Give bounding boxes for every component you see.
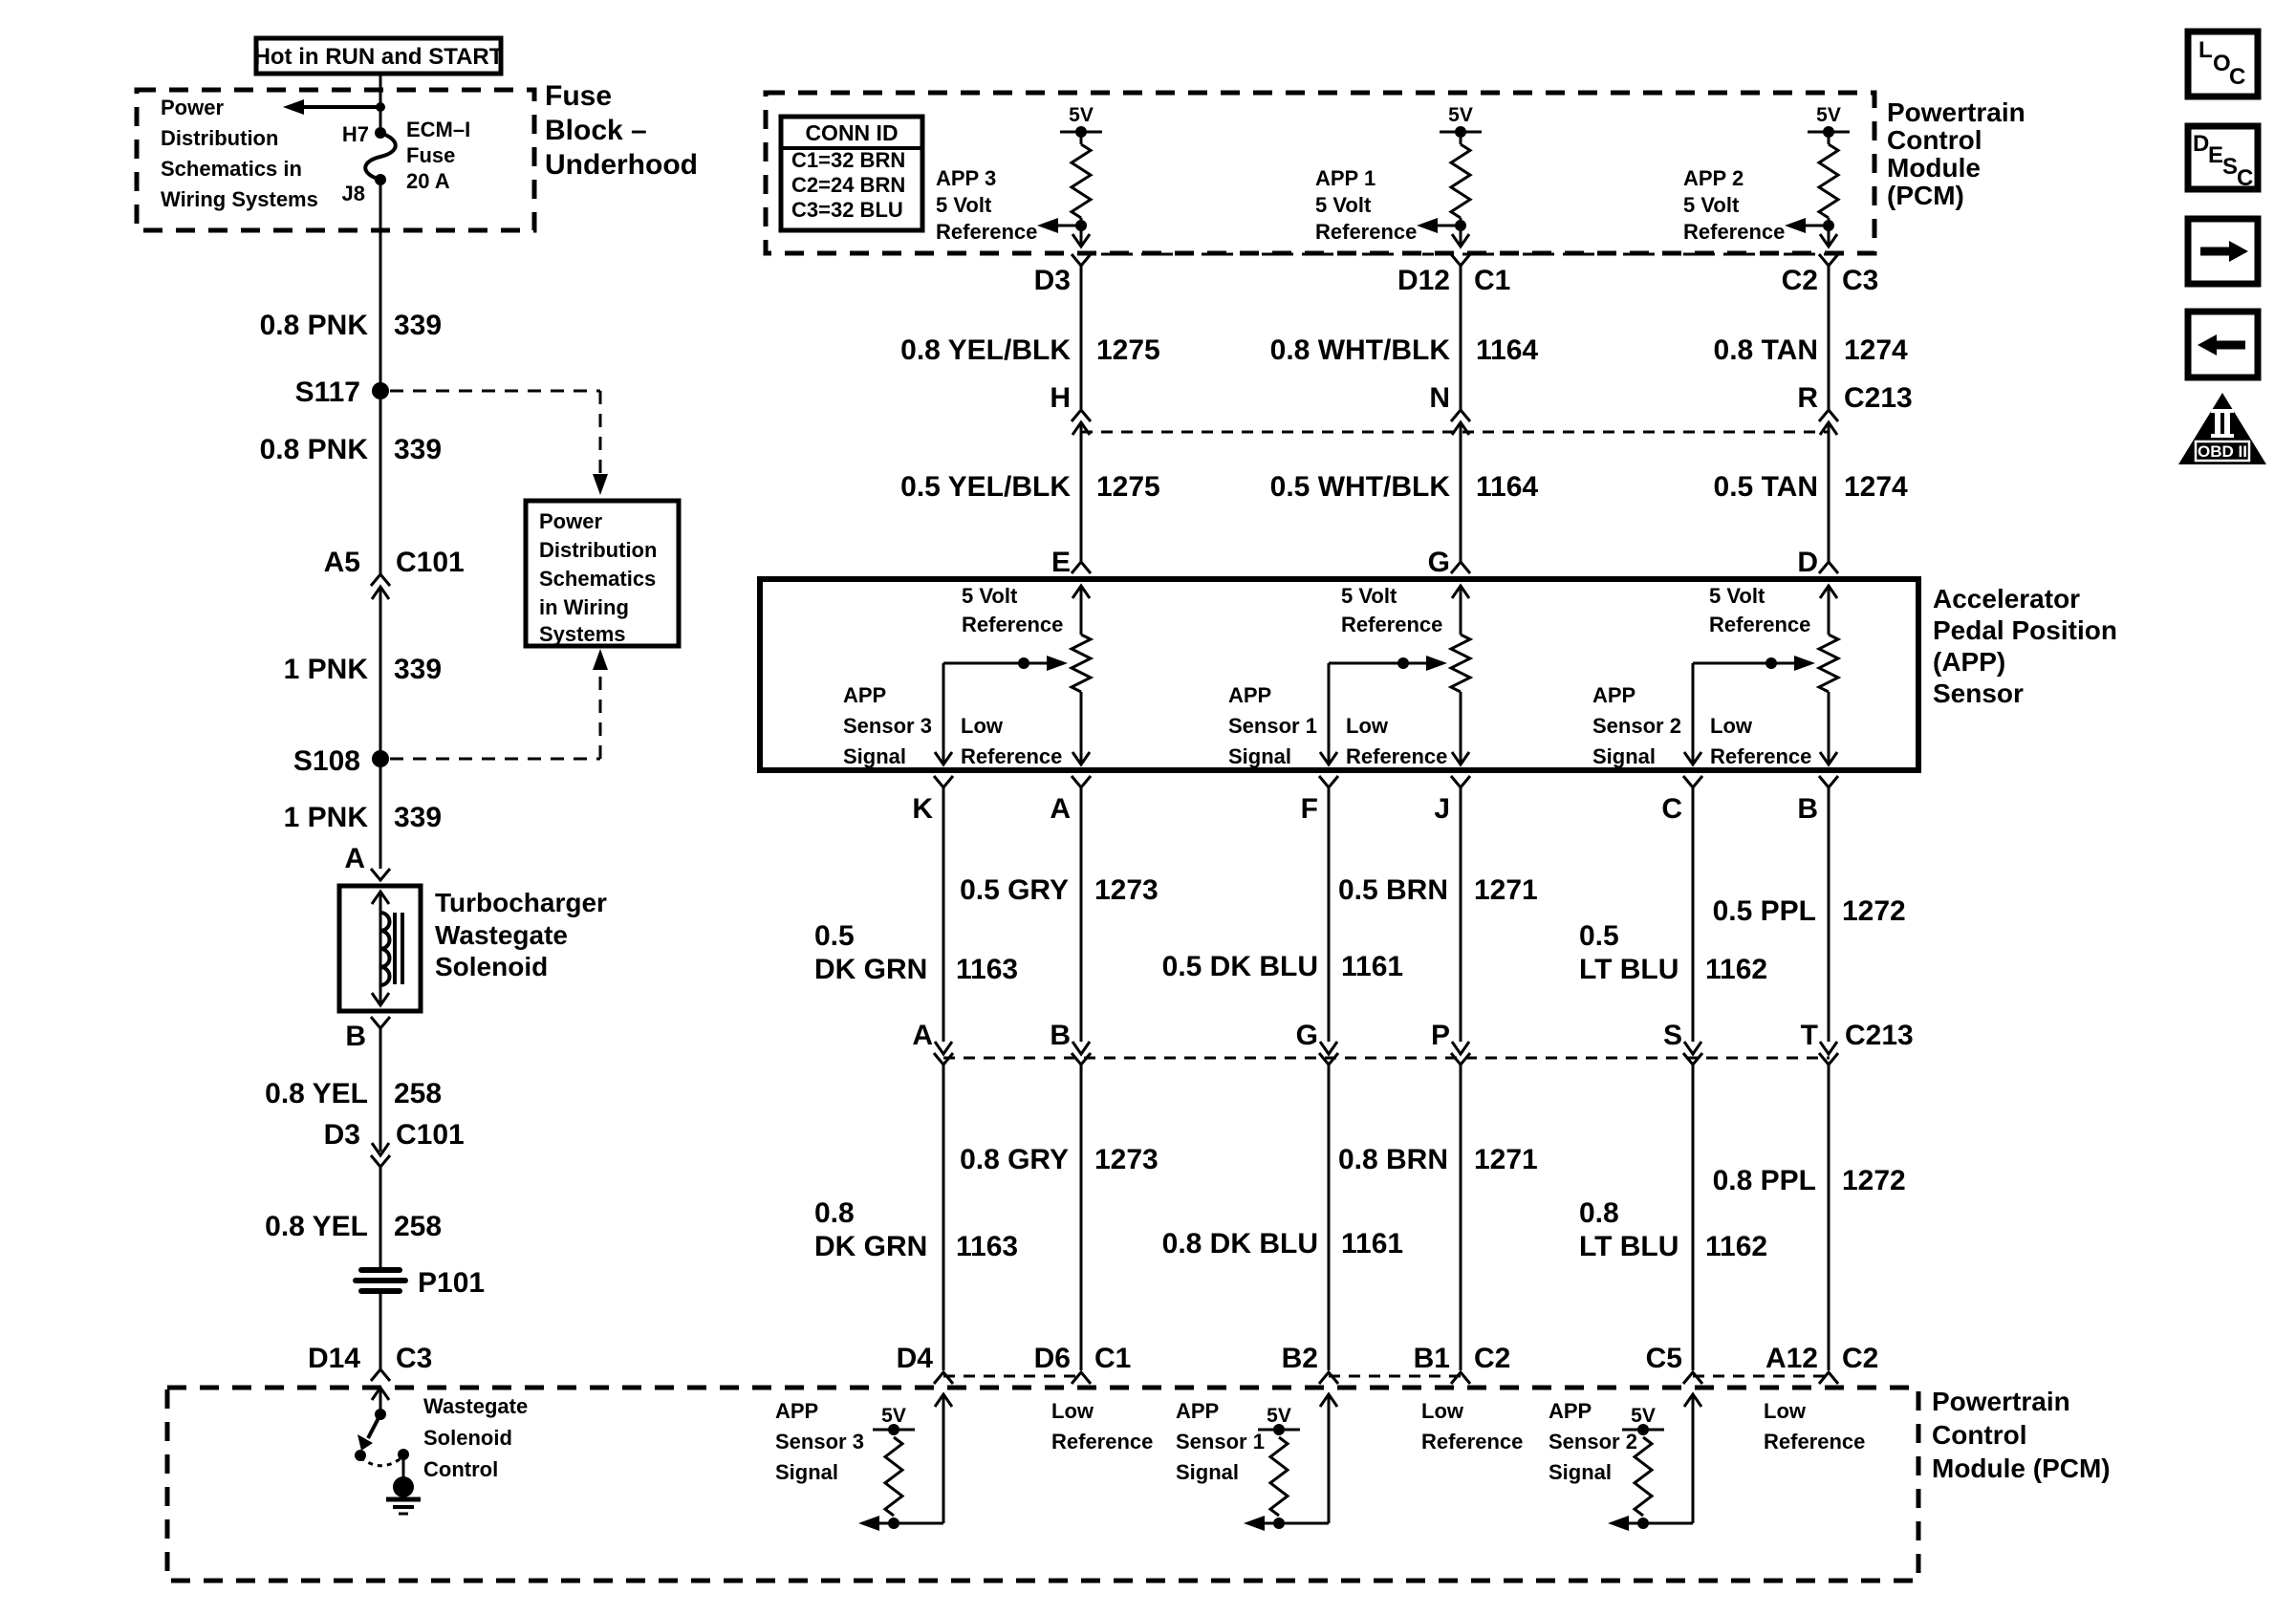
svg-text:C1: C1 (1474, 265, 1510, 296)
svg-text:Control: Control (423, 1457, 498, 1481)
svg-text:C2=24 BRN: C2=24 BRN (791, 173, 905, 197)
svg-text:Sensor 3: Sensor 3 (775, 1430, 864, 1453)
svg-text:Low: Low (1421, 1399, 1464, 1423)
svg-text:Reference: Reference (962, 613, 1063, 636)
svg-text:Low: Low (1710, 714, 1753, 738)
svg-text:G: G (1428, 547, 1450, 578)
svg-text:Low: Low (1346, 714, 1389, 738)
svg-text:Sensor 2: Sensor 2 (1549, 1430, 1637, 1453)
svg-text:C1=32 BRN: C1=32 BRN (791, 148, 905, 172)
svg-text:B2: B2 (1282, 1343, 1318, 1374)
svg-text:Control: Control (1887, 125, 1982, 155)
svg-text:G: G (1296, 1020, 1318, 1051)
svg-text:Solenoid: Solenoid (423, 1426, 512, 1450)
svg-text:Sensor: Sensor (1933, 678, 2024, 708)
svg-text:D: D (1797, 547, 1818, 578)
svg-text:1 PNK: 1 PNK (284, 654, 369, 685)
svg-text:APP: APP (1549, 1399, 1592, 1423)
svg-text:20 A: 20 A (406, 169, 450, 193)
svg-text:Pedal Position: Pedal Position (1933, 615, 2117, 645)
svg-text:1273: 1273 (1094, 874, 1159, 906)
svg-text:APP: APP (1228, 683, 1271, 707)
svg-text:C101: C101 (396, 1119, 465, 1151)
svg-text:A: A (912, 1020, 933, 1051)
svg-text:Reference: Reference (1346, 744, 1447, 768)
svg-text:H: H (1050, 382, 1071, 414)
svg-text:Fuse: Fuse (545, 80, 612, 112)
svg-text:Low: Low (961, 714, 1004, 738)
svg-text:0.8 WHT/BLK: 0.8 WHT/BLK (1270, 334, 1451, 366)
svg-text:1271: 1271 (1474, 1144, 1538, 1175)
svg-text:C2: C2 (1474, 1343, 1510, 1374)
svg-text:5V: 5V (1448, 104, 1473, 126)
svg-text:S: S (1663, 1020, 1682, 1051)
svg-text:APP 1: APP 1 (1315, 166, 1375, 190)
svg-text:C2: C2 (1842, 1343, 1878, 1374)
svg-text:C3: C3 (396, 1343, 432, 1374)
svg-text:1161: 1161 (1341, 951, 1403, 982)
svg-text:C213: C213 (1844, 382, 1913, 414)
svg-text:E: E (2208, 142, 2223, 168)
svg-text:T: T (1801, 1020, 1818, 1051)
svg-text:C: C (1661, 793, 1682, 825)
svg-text:1164: 1164 (1476, 471, 1538, 503)
svg-text:0.5 WHT/BLK: 0.5 WHT/BLK (1270, 471, 1451, 503)
svg-text:C101: C101 (396, 547, 465, 578)
svg-text:Signal: Signal (1592, 744, 1656, 768)
svg-text:APP: APP (775, 1399, 818, 1423)
svg-text:Power: Power (161, 96, 224, 119)
svg-text:0.8 TAN: 0.8 TAN (1714, 334, 1818, 366)
svg-text:Module (PCM): Module (PCM) (1932, 1453, 2111, 1483)
svg-text:A: A (1050, 793, 1071, 825)
svg-text:D6: D6 (1034, 1343, 1071, 1374)
svg-text:0.5 BRN: 0.5 BRN (1338, 874, 1448, 906)
svg-text:S: S (2222, 154, 2238, 180)
svg-text:1164: 1164 (1476, 334, 1538, 366)
svg-text:1162: 1162 (1705, 954, 1767, 985)
svg-text:Sensor 2: Sensor 2 (1592, 714, 1681, 738)
svg-text:B: B (1797, 793, 1818, 825)
svg-text:A: A (344, 843, 365, 874)
svg-text:0.8 YEL: 0.8 YEL (265, 1211, 368, 1242)
svg-text:5V: 5V (1816, 104, 1841, 126)
svg-text:S108: S108 (293, 745, 360, 777)
svg-text:LT BLU: LT BLU (1579, 954, 1679, 985)
svg-text:5V: 5V (1069, 104, 1094, 126)
svg-text:Reference: Reference (1709, 613, 1810, 636)
svg-text:APP: APP (1592, 683, 1635, 707)
svg-text:Reference: Reference (1341, 613, 1442, 636)
svg-text:Reference: Reference (1683, 220, 1785, 244)
svg-text:N: N (1429, 382, 1450, 414)
svg-text:A12: A12 (1765, 1343, 1818, 1374)
svg-text:C3=32 BLU: C3=32 BLU (791, 198, 903, 222)
svg-text:1272: 1272 (1842, 1165, 1906, 1196)
svg-text:Low: Low (1051, 1399, 1094, 1423)
svg-text:Hot in RUN and START: Hot in RUN and START (254, 44, 504, 70)
svg-text:Control: Control (1932, 1420, 2027, 1450)
svg-text:1272: 1272 (1842, 895, 1906, 927)
svg-text:339: 339 (394, 802, 442, 833)
svg-text:Wiring Systems: Wiring Systems (161, 187, 318, 211)
svg-text:1161: 1161 (1341, 1228, 1403, 1260)
svg-text:1275: 1275 (1096, 471, 1160, 503)
svg-text:1 PNK: 1 PNK (284, 802, 369, 833)
svg-text:Block –: Block – (545, 115, 647, 146)
svg-text:Powertrain: Powertrain (1887, 97, 2025, 127)
svg-text:0.5 DK BLU: 0.5 DK BLU (1162, 951, 1318, 982)
svg-text:D4: D4 (897, 1343, 934, 1374)
svg-text:1273: 1273 (1094, 1144, 1159, 1175)
svg-text:Solenoid: Solenoid (435, 952, 548, 981)
svg-text:Signal: Signal (1176, 1460, 1239, 1484)
svg-text:0.8 YEL/BLK: 0.8 YEL/BLK (900, 334, 1071, 366)
svg-text:1163: 1163 (956, 954, 1018, 985)
svg-text:APP 2: APP 2 (1683, 166, 1744, 190)
svg-text:C213: C213 (1845, 1020, 1914, 1051)
svg-text:Signal: Signal (1228, 744, 1291, 768)
svg-text:5 Volt: 5 Volt (936, 193, 992, 217)
svg-text:Accelerator: Accelerator (1933, 584, 2080, 614)
svg-text:Signal: Signal (1549, 1460, 1612, 1484)
svg-text:Signal: Signal (843, 744, 906, 768)
svg-text:Fuse: Fuse (406, 143, 455, 167)
svg-text:C: C (2237, 165, 2253, 191)
svg-text:1163: 1163 (956, 1231, 1018, 1262)
svg-text:0.8: 0.8 (814, 1197, 855, 1229)
svg-text:1274: 1274 (1844, 334, 1908, 366)
svg-text:Reference: Reference (1421, 1430, 1523, 1453)
svg-text:Reference: Reference (1710, 744, 1811, 768)
svg-text:0.5 PPL: 0.5 PPL (1713, 895, 1816, 927)
svg-text:H7: H7 (342, 122, 369, 146)
svg-text:Reference: Reference (1315, 220, 1417, 244)
svg-text:Reference: Reference (1051, 1430, 1153, 1453)
svg-text:in Wiring: in Wiring (539, 595, 629, 619)
svg-text:339: 339 (394, 654, 442, 685)
svg-text:0.5 TAN: 0.5 TAN (1714, 471, 1818, 503)
svg-text:Wastegate: Wastegate (435, 920, 568, 950)
svg-text:Sensor 1: Sensor 1 (1176, 1430, 1265, 1453)
svg-text:P: P (1431, 1020, 1450, 1051)
svg-text:Reference: Reference (936, 220, 1037, 244)
svg-text:APP: APP (843, 683, 886, 707)
svg-text:D3: D3 (324, 1119, 360, 1151)
svg-text:339: 339 (394, 434, 442, 465)
svg-text:J: J (1434, 793, 1450, 825)
svg-text:Module: Module (1887, 153, 1981, 183)
svg-text:0.5 YEL/BLK: 0.5 YEL/BLK (900, 471, 1071, 503)
svg-text:APP 3: APP 3 (936, 166, 996, 190)
svg-text:R: R (1797, 382, 1818, 414)
svg-text:0.5: 0.5 (1579, 920, 1619, 952)
svg-text:Underhood: Underhood (545, 149, 698, 181)
svg-text:5 Volt: 5 Volt (1341, 584, 1397, 608)
svg-text:C5: C5 (1646, 1343, 1682, 1374)
svg-text:1162: 1162 (1705, 1231, 1767, 1262)
svg-text:DK GRN: DK GRN (814, 954, 927, 985)
svg-text:5 Volt: 5 Volt (1315, 193, 1372, 217)
svg-text:B1: B1 (1414, 1343, 1450, 1374)
svg-text:5V: 5V (1267, 1405, 1291, 1427)
svg-text:0.5: 0.5 (814, 920, 855, 952)
svg-text:A5: A5 (324, 547, 360, 578)
svg-text:1274: 1274 (1844, 471, 1908, 503)
svg-text:Low: Low (1764, 1399, 1807, 1423)
svg-text:C3: C3 (1842, 265, 1878, 296)
svg-text:5 Volt: 5 Volt (1683, 193, 1740, 217)
svg-text:D14: D14 (308, 1343, 360, 1374)
svg-text:(APP): (APP) (1933, 647, 2005, 677)
svg-text:C1: C1 (1094, 1343, 1131, 1374)
svg-text:0.5 GRY: 0.5 GRY (960, 874, 1069, 906)
svg-text:0.8 PNK: 0.8 PNK (260, 310, 369, 341)
svg-text:B: B (1050, 1020, 1071, 1051)
svg-text:C2: C2 (1782, 265, 1818, 296)
svg-text:O: O (2213, 51, 2231, 76)
svg-text:Systems: Systems (539, 622, 626, 646)
svg-text:(PCM): (PCM) (1887, 181, 1964, 210)
svg-text:0.8 GRY: 0.8 GRY (960, 1144, 1069, 1175)
svg-text:0.8 BRN: 0.8 BRN (1338, 1144, 1448, 1175)
svg-text:Reference: Reference (961, 744, 1062, 768)
svg-text:258: 258 (394, 1078, 442, 1109)
svg-text:Sensor 1: Sensor 1 (1228, 714, 1317, 738)
svg-text:Reference: Reference (1764, 1430, 1865, 1453)
svg-text:ECM–I: ECM–I (406, 118, 470, 141)
svg-text:339: 339 (394, 310, 442, 341)
svg-text:0.8: 0.8 (1579, 1197, 1619, 1229)
svg-text:K: K (912, 793, 933, 825)
svg-text:Turbocharger: Turbocharger (435, 888, 607, 917)
svg-text:LT BLU: LT BLU (1579, 1231, 1679, 1262)
svg-text:Schematics: Schematics (539, 567, 656, 591)
svg-text:1275: 1275 (1096, 334, 1160, 366)
svg-text:APP: APP (1176, 1399, 1219, 1423)
svg-text:5 Volt: 5 Volt (1709, 584, 1765, 608)
svg-text:S117: S117 (295, 377, 360, 408)
svg-text:C: C (2229, 64, 2245, 90)
svg-text:0.8 YEL: 0.8 YEL (265, 1078, 368, 1109)
svg-text:Power: Power (539, 509, 602, 533)
svg-text:CONN ID: CONN ID (805, 120, 898, 145)
svg-text:5V: 5V (1631, 1405, 1656, 1427)
svg-text:0.8 DK BLU: 0.8 DK BLU (1162, 1228, 1318, 1260)
svg-text:Distribution: Distribution (161, 126, 278, 150)
svg-text:OBD II: OBD II (2198, 442, 2247, 461)
svg-text:DK GRN: DK GRN (814, 1231, 927, 1262)
svg-text:Distribution: Distribution (539, 538, 657, 562)
svg-text:E: E (1051, 547, 1071, 578)
svg-text:J8: J8 (342, 182, 365, 205)
svg-text:Signal: Signal (775, 1460, 838, 1484)
svg-text:D: D (2193, 131, 2209, 157)
svg-text:Powertrain: Powertrain (1932, 1387, 2070, 1416)
svg-text:L: L (2199, 37, 2213, 63)
svg-text:D3: D3 (1034, 265, 1071, 296)
svg-text:5V: 5V (881, 1405, 906, 1427)
svg-text:5 Volt: 5 Volt (962, 584, 1018, 608)
svg-text:258: 258 (394, 1211, 442, 1242)
svg-text:D12: D12 (1397, 265, 1450, 296)
svg-text:B: B (345, 1021, 366, 1052)
svg-text:0.8 PNK: 0.8 PNK (260, 434, 369, 465)
svg-text:F: F (1301, 793, 1318, 825)
svg-text:P101: P101 (418, 1267, 485, 1299)
svg-text:0.8 PPL: 0.8 PPL (1713, 1165, 1816, 1196)
svg-text:1271: 1271 (1474, 874, 1538, 906)
svg-text:Wastegate: Wastegate (423, 1394, 528, 1418)
svg-text:Schematics in: Schematics in (161, 157, 302, 181)
svg-text:Sensor 3: Sensor 3 (843, 714, 932, 738)
